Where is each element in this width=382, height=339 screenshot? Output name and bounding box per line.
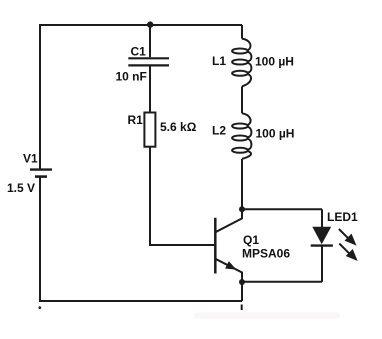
wire emitter node down bbox=[241, 282, 243, 301]
svg-text:MPSA06: MPSA06 bbox=[242, 246, 290, 260]
wire between inductors bbox=[241, 86, 243, 113]
svg-text:100 µH: 100 µH bbox=[256, 126, 295, 140]
svg-text:V1: V1 bbox=[23, 152, 38, 166]
LED LED1 bbox=[311, 227, 358, 261]
svg-text:5.6 kΩ: 5.6 kΩ bbox=[160, 120, 197, 134]
svg-text:R1: R1 bbox=[128, 113, 144, 127]
faint smudge artifact bbox=[194, 313, 340, 319]
wire emitter node to LED bottom bbox=[242, 281, 322, 283]
wire collector node to LED bbox=[242, 208, 322, 210]
transistor Q1 bbox=[215, 209, 242, 282]
wire capacitor top lead bbox=[149, 25, 151, 57]
wire left vertical upper bbox=[39, 24, 41, 169]
battery V1 bbox=[30, 170, 52, 177]
wire LED bottom lead bbox=[321, 246, 323, 282]
wire stub below bottom wire bbox=[241, 305, 243, 311]
wire base lead bbox=[150, 147, 215, 245]
svg-text:L1: L1 bbox=[212, 54, 226, 68]
wire top horizontal bbox=[40, 24, 242, 26]
wire inductor L2 to collector node bbox=[241, 159, 243, 209]
node junction top (C1/top wire) bbox=[147, 21, 153, 27]
svg-text:Q1: Q1 bbox=[243, 233, 259, 247]
wire left vertical lower bbox=[39, 178, 41, 302]
svg-text:1.5 V: 1.5 V bbox=[7, 181, 35, 195]
svg-text:L2: L2 bbox=[212, 124, 226, 138]
wire inductor L1 top lead bbox=[241, 25, 243, 39]
svg-text:100 µH: 100 µH bbox=[255, 55, 294, 69]
node dot below bottom-left corner bbox=[38, 306, 41, 309]
resistor R1 bbox=[144, 113, 155, 147]
svg-text:C1: C1 bbox=[131, 45, 147, 59]
svg-text:LED1: LED1 bbox=[327, 210, 358, 224]
inductor L2 bbox=[232, 113, 251, 159]
inductor L1 bbox=[232, 39, 251, 87]
capacitor C1 bbox=[128, 58, 169, 65]
svg-text:10 nF: 10 nF bbox=[116, 70, 147, 84]
wire bottom horizontal bbox=[39, 300, 242, 302]
node junction emitter bbox=[239, 279, 245, 285]
wire LED top lead bbox=[321, 209, 323, 228]
wire capacitor to resistor bbox=[149, 67, 151, 114]
node junction collector bbox=[239, 206, 245, 212]
